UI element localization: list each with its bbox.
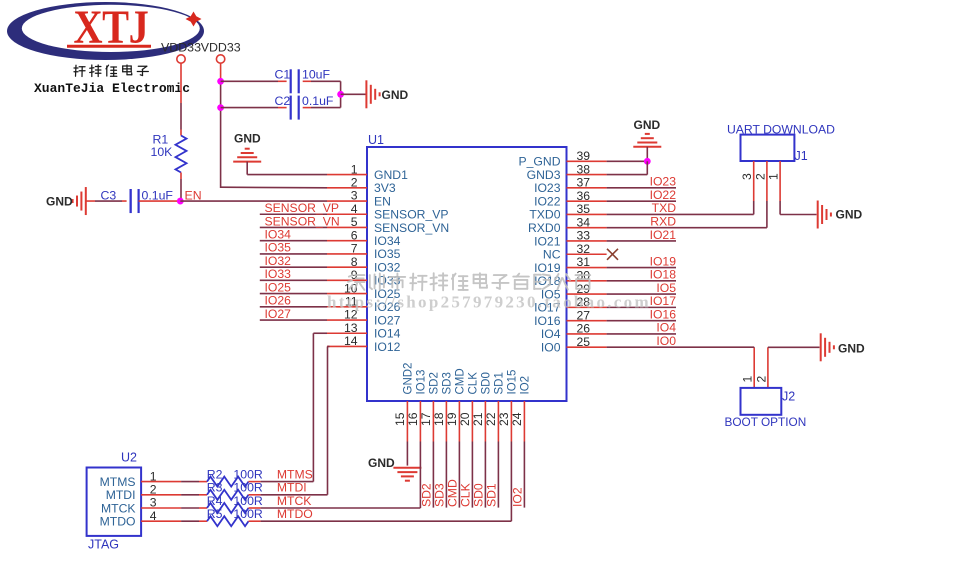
wire net IO33 (260, 279, 327, 281)
svg-text:16: 16 (406, 412, 420, 426)
svg-text:IO15: IO15 (507, 370, 519, 395)
wire 3V3 branch to U1 pin2 (221, 186, 327, 189)
J1 pin stubs and numbers (753, 161, 755, 201)
wire net SD1 (497, 442, 499, 508)
svg-text:32: 32 (577, 242, 591, 256)
svg-text:MTCK: MTCK (277, 494, 312, 508)
svg-text:21: 21 (471, 412, 485, 426)
svg-text:GND: GND (368, 456, 395, 470)
junction dot pin39 (644, 158, 651, 165)
svg-text:SD1: SD1 (494, 372, 506, 394)
wire net CLK (471, 442, 473, 508)
svg-text:C1: C1 (275, 68, 291, 82)
svg-text:5: 5 (351, 215, 358, 229)
svg-text:C2: C2 (275, 94, 291, 108)
svg-text:GND: GND (382, 88, 409, 102)
wire net IO17 (607, 306, 676, 308)
wire net IO5 (607, 293, 676, 295)
wire TXD to J1 pin3 (753, 201, 755, 214)
resistor R2 (199, 481, 207, 483)
svg-text:J1: J1 (795, 149, 808, 163)
svg-text:GND: GND (838, 342, 865, 356)
logo star (186, 12, 202, 27)
wire C1/C2 join vertical (340, 81, 342, 107)
svg-text:18: 18 (432, 412, 446, 426)
svg-text:14: 14 (344, 334, 358, 348)
wire IO0 to J2 pin1 (753, 346, 755, 349)
U1 left pins 1-14 stubs numbers names (327, 174, 367, 176)
wire net IO25 (260, 293, 327, 295)
svg-text:3V3: 3V3 (374, 181, 396, 195)
svg-text:100R: 100R (233, 494, 263, 508)
wire net IO18 (607, 280, 676, 282)
U2 pin 2 wire (141, 494, 181, 496)
svg-text:IO33: IO33 (265, 267, 292, 281)
svg-text:P_GND: P_GND (519, 155, 561, 169)
svg-text:U1: U1 (368, 133, 384, 147)
svg-text:24: 24 (510, 412, 524, 426)
svg-text:10K: 10K (151, 145, 174, 159)
svg-text:GND: GND (234, 132, 261, 146)
ground symbol J1 (817, 201, 819, 229)
svg-text:U2: U2 (121, 451, 137, 465)
svg-text:MTDO: MTDO (277, 507, 313, 521)
svg-text:IO34: IO34 (265, 228, 292, 242)
svg-text:SD0: SD0 (472, 483, 486, 507)
svg-text:33: 33 (577, 229, 591, 243)
svg-text:IO21: IO21 (650, 228, 677, 242)
U1 right pins 39-25 stubs numbers names (567, 160, 607, 162)
svg-text:SENSOR_VP: SENSOR_VP (374, 208, 449, 222)
U2 pin 4 wire (141, 520, 181, 522)
svg-text:35: 35 (577, 202, 591, 216)
wire net MTMS (261, 481, 314, 483)
power node VDD33 no.2 circle (216, 55, 224, 63)
svg-text:R3: R3 (207, 481, 223, 495)
wire net SD2 (432, 442, 434, 508)
svg-text:IO18: IO18 (650, 268, 677, 282)
svg-text:IO34: IO34 (374, 234, 401, 248)
svg-text:IO0: IO0 (656, 334, 676, 348)
wire C1 right (303, 80, 311, 82)
svg-text:IO12: IO12 (374, 340, 401, 354)
svg-text:39: 39 (577, 149, 591, 163)
svg-text:JTAG: JTAG (88, 538, 119, 552)
svg-text:IO0: IO0 (541, 341, 561, 355)
svg-text:2: 2 (351, 176, 358, 190)
svg-text:25: 25 (577, 335, 591, 349)
connector U2 box (87, 468, 142, 536)
svg-text:C3: C3 (101, 189, 117, 203)
svg-text:MTDI: MTDI (106, 488, 136, 502)
svg-text:8: 8 (351, 255, 358, 269)
wire J1 pin1 to GND (779, 201, 781, 215)
wire to C1 (221, 80, 278, 82)
svg-text:VDD33: VDD33 (161, 41, 201, 55)
wire net IO21 (607, 240, 676, 242)
wire P_GND pin39 to gnd (607, 160, 648, 162)
svg-text:10uF: 10uF (302, 68, 331, 82)
svg-text:SD0: SD0 (481, 372, 493, 394)
svg-text:EN: EN (374, 194, 391, 208)
svg-text:GND2: GND2 (403, 363, 415, 395)
wire C3 to EN junction (139, 200, 181, 202)
wire MTDO riser pin23 (510, 442, 512, 522)
svg-text:17: 17 (419, 412, 433, 426)
svg-text:SENSOR_VP: SENSOR_VP (265, 201, 340, 215)
wire net CMD (458, 442, 460, 508)
resistor R5 (199, 520, 207, 522)
resistor R1 (180, 130, 182, 136)
logo chinese text 轩特佳电子 (74, 65, 85, 76)
wire net SENSOR_VN (260, 226, 327, 228)
svg-text:13: 13 (344, 321, 358, 335)
junction dot C2 row (217, 104, 224, 111)
svg-text:IO4: IO4 (541, 327, 561, 341)
watermark chinese line (348, 275, 364, 290)
svg-text:CMD: CMD (446, 479, 460, 507)
svg-text:MTMS: MTMS (277, 467, 313, 481)
svg-text:IO21: IO21 (534, 234, 561, 248)
wire RXD to J1 pin2 (766, 201, 768, 228)
svg-text:BOOT OPTION: BOOT OPTION (725, 415, 807, 429)
wire net SD3 (445, 442, 447, 508)
resistor R3 (199, 494, 207, 496)
svg-text:1: 1 (741, 376, 755, 383)
svg-text:IO35: IO35 (265, 241, 292, 255)
svg-text:CMD: CMD (455, 368, 467, 394)
svg-text:1: 1 (351, 162, 358, 176)
svg-text:GND1: GND1 (374, 168, 408, 182)
svg-text:IO23: IO23 (534, 181, 561, 195)
svg-text:TXD: TXD (652, 201, 677, 215)
resistor R4 (199, 507, 207, 509)
capacitor C1 (290, 69, 292, 93)
wire GND to U1 pin1 (246, 162, 248, 175)
wire to C2 (221, 107, 278, 109)
svg-text:23: 23 (497, 412, 511, 426)
svg-text:https://shop257979230.taobao.c: https://shop257979230.taobao.com (327, 293, 651, 312)
wire join to GND right (341, 93, 366, 95)
svg-text:SD1: SD1 (485, 483, 499, 507)
wire J2 pin2 to GND (767, 347, 769, 388)
svg-text:RXD0: RXD0 (528, 221, 561, 235)
svg-text:IO23: IO23 (650, 175, 677, 189)
svg-text:MTDO: MTDO (100, 515, 136, 529)
header J1 box (741, 135, 795, 161)
logo underline (67, 45, 151, 48)
svg-text:TXD0: TXD0 (529, 208, 560, 222)
svg-text:15: 15 (393, 412, 407, 426)
svg-text:20: 20 (458, 412, 472, 426)
svg-text:CLK: CLK (468, 372, 480, 395)
svg-text:IO16: IO16 (534, 314, 561, 328)
wire net TXD (607, 213, 754, 215)
svg-text:IO19: IO19 (650, 254, 677, 268)
svg-text:GND3: GND3 (527, 168, 561, 182)
ground symbol left of C3 (85, 187, 87, 215)
svg-text:SD2: SD2 (420, 483, 434, 507)
wire net MTDI (261, 494, 328, 496)
svg-text:6: 6 (351, 228, 358, 242)
svg-text:VDD33: VDD33 (201, 41, 241, 55)
svg-text:31: 31 (577, 255, 591, 269)
svg-text:R5: R5 (207, 507, 223, 521)
wire net IO32 (260, 266, 327, 268)
svg-text:MTCK: MTCK (101, 501, 136, 515)
svg-text:GND: GND (634, 118, 661, 132)
svg-text:SENSOR_VN: SENSOR_VN (265, 214, 340, 228)
ground symbol right of C1 C2 (365, 80, 367, 108)
wire VDD33 to R1 top (180, 63, 182, 103)
wire net MTCK (261, 507, 421, 509)
wire net IO27 (260, 319, 327, 321)
wire net IO22 (607, 200, 676, 202)
svg-text:IO14: IO14 (374, 327, 401, 341)
junction dot EN (177, 198, 184, 205)
svg-text:MTDI: MTDI (277, 481, 307, 495)
wire net IO2 (523, 442, 525, 508)
no-connect X on pin32 (607, 249, 618, 260)
svg-text:34: 34 (577, 215, 591, 229)
svg-text:XuanTeJia Electromic: XuanTeJia Electromic (34, 81, 190, 96)
wire C2 right (303, 107, 311, 109)
svg-text:100R: 100R (233, 507, 263, 521)
svg-text:RXD: RXD (650, 215, 676, 229)
ground symbol J2 (820, 333, 822, 361)
wire net IO0 (607, 346, 755, 348)
wire MTDI riser to pin14 (328, 345, 330, 347)
svg-text:IO2: IO2 (511, 487, 525, 507)
svg-text:1: 1 (767, 173, 781, 180)
svg-text:MTMS: MTMS (100, 475, 136, 489)
wire MTMS riser to pin13 (313, 332, 327, 334)
wire net IO26 (260, 306, 327, 308)
svg-text:IO17: IO17 (650, 294, 677, 308)
wire VDD33-2 down (220, 63, 222, 81)
U2 pin 1 wire (141, 481, 181, 483)
wire MTCK riser pin16 (419, 442, 421, 509)
svg-text:IO13: IO13 (416, 370, 428, 395)
capacitor C3 (130, 189, 132, 213)
wire net IO23 (607, 187, 676, 189)
wire net IO35 (260, 253, 327, 255)
power node VDD33 no.1 circle (177, 55, 185, 63)
svg-text:37: 37 (577, 176, 591, 190)
svg-text:36: 36 (577, 189, 591, 203)
junction dot C1 row (217, 78, 224, 85)
wire GND to C3 (86, 200, 95, 202)
svg-text:7: 7 (351, 242, 358, 256)
svg-text:GND: GND (46, 195, 73, 209)
wire R1 bottom to EN junction (180, 179, 182, 198)
svg-text:IO25: IO25 (265, 280, 292, 294)
wire net MTDO (261, 520, 512, 522)
svg-text:100R: 100R (233, 467, 263, 481)
svg-text:CLK: CLK (459, 483, 473, 507)
wire net IO4 (607, 333, 676, 335)
svg-text:IO16: IO16 (650, 307, 677, 321)
svg-text:IO32: IO32 (265, 254, 292, 268)
U2 pin 3 wire (141, 507, 181, 509)
wire net IO16 (607, 320, 676, 322)
svg-text:IO32: IO32 (374, 260, 401, 274)
svg-text:2: 2 (753, 173, 767, 180)
header J2 box (741, 388, 782, 415)
svg-text:IO22: IO22 (534, 194, 561, 208)
svg-text:2: 2 (754, 376, 768, 383)
svg-text:R2: R2 (207, 467, 223, 481)
svg-text:SD3: SD3 (442, 372, 454, 394)
svg-text:IO26: IO26 (265, 294, 292, 308)
svg-text:IO2: IO2 (520, 376, 532, 395)
svg-text:R4: R4 (207, 494, 223, 508)
svg-text:3: 3 (740, 173, 754, 180)
wire net IO19 (607, 267, 676, 269)
svg-text:IO27: IO27 (265, 307, 292, 321)
svg-text:4: 4 (351, 202, 358, 216)
junction dot cap join (337, 91, 344, 98)
svg-text:0.1uF: 0.1uF (302, 94, 334, 108)
svg-text:26: 26 (577, 322, 591, 336)
wire net SENSOR_VP (260, 213, 327, 215)
svg-text:SENSOR_VN: SENSOR_VN (374, 221, 449, 235)
svg-text:3: 3 (351, 189, 358, 203)
wire EN to U1 pin3 (180, 200, 327, 202)
svg-text:IO5: IO5 (656, 281, 676, 295)
capacitor C2 (290, 96, 292, 120)
IC U1 box (367, 147, 567, 401)
wire net SD0 (484, 442, 486, 508)
svg-text:38: 38 (577, 162, 591, 176)
wire net IO34 (260, 240, 327, 242)
svg-text:SD3: SD3 (433, 483, 447, 507)
wire GND3 pin38 riser (607, 174, 648, 176)
svg-text:SD2: SD2 (429, 372, 441, 394)
svg-text:IO27: IO27 (374, 313, 401, 327)
svg-text:22: 22 (484, 412, 498, 426)
logo ellipse ring (7, 2, 204, 60)
svg-text:IO4: IO4 (656, 321, 676, 335)
svg-text:IO22: IO22 (650, 188, 677, 202)
svg-text:IO35: IO35 (374, 247, 401, 261)
svg-text:J2: J2 (782, 390, 795, 404)
svg-text:GND: GND (836, 208, 863, 222)
svg-text:100R: 100R (233, 481, 263, 495)
U1 bottom pins 15-24 stubs numbers names (406, 401, 408, 442)
svg-text:19: 19 (445, 412, 459, 426)
svg-text:IO19: IO19 (534, 261, 561, 275)
wire net RXD (607, 227, 767, 229)
svg-text:NC: NC (543, 248, 561, 262)
